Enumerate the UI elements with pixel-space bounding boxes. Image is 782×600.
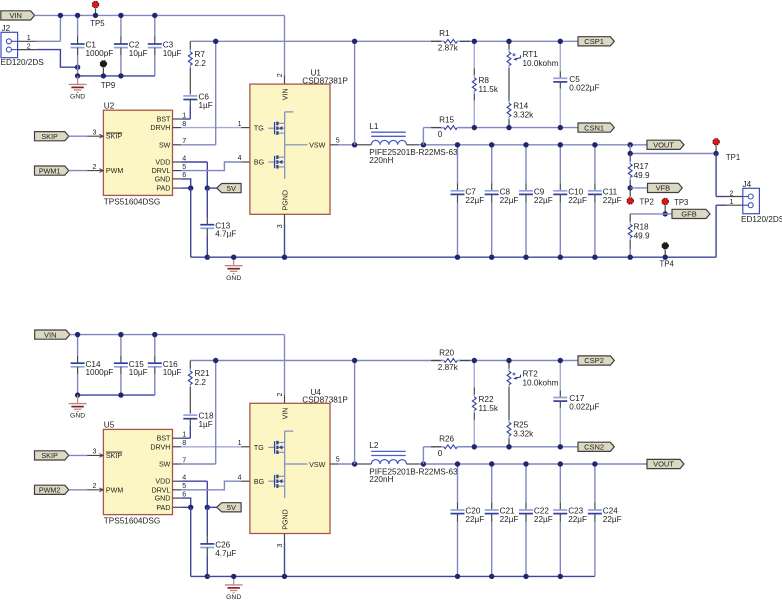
svg-text:GND: GND	[70, 94, 85, 101]
svg-text:SKIP: SKIP	[41, 132, 58, 141]
svg-text:R7: R7	[195, 50, 206, 59]
node CSN line junctions	[472, 125, 477, 130]
net tag GFB	[665, 213, 672, 215]
ground	[233, 576, 235, 584]
svg-text:SKIP: SKIP	[41, 451, 58, 460]
input tag SKIP	[35, 451, 69, 460]
svg-text:TP1: TP1	[726, 153, 740, 162]
wire CSN line	[457, 127, 578, 129]
svg-text:BG: BG	[254, 478, 264, 486]
node VFB junction	[628, 185, 633, 190]
svg-text:VFB: VFB	[656, 184, 671, 193]
svg-text:2: 2	[93, 482, 97, 490]
capacitor C15	[120, 335, 122, 356]
wire VDD pin 4	[173, 161, 182, 163]
driver IC U5 TPS51604DSG	[103, 429, 172, 514]
wire C6 to BST	[189, 106, 191, 119]
net tag VFB	[630, 187, 647, 189]
node PGND junction	[282, 574, 287, 579]
net tag VOUT	[647, 459, 684, 468]
wire input cap ground bus	[78, 394, 155, 396]
svg-text:R8: R8	[479, 76, 490, 85]
svg-text:VIN: VIN	[282, 408, 290, 420]
wire VOUT to TP1 line	[629, 145, 631, 154]
low-side MOSFET	[268, 161, 274, 163]
svg-text:7: 7	[182, 456, 186, 464]
node SW junction	[213, 39, 218, 44]
svg-text:TPS51604DSG: TPS51604DSG	[104, 517, 160, 526]
wire SW node line	[190, 360, 444, 362]
svg-text:VDD: VDD	[155, 159, 170, 167]
svg-text:U2: U2	[104, 101, 115, 110]
svg-text:2.2: 2.2	[195, 59, 207, 68]
wire VSW	[330, 144, 339, 146]
wire DRVL to BG	[173, 170, 182, 172]
svg-text:22µF: 22µF	[534, 196, 553, 205]
svg-text:GND: GND	[155, 175, 171, 183]
node C13 ground junction	[205, 255, 210, 260]
svg-text:TG: TG	[254, 125, 264, 133]
svg-text:220nH: 220nH	[369, 475, 393, 484]
svg-text:VIN: VIN	[9, 11, 22, 20]
svg-text:DRVH: DRVH	[150, 443, 170, 451]
svg-text:2.87k: 2.87k	[438, 44, 459, 53]
node input gnd bus junctions	[75, 73, 80, 78]
resistor R8 11.5k	[473, 41, 475, 68]
svg-text:TPS51604DSG: TPS51604DSG	[104, 198, 160, 207]
power tag 5V	[207, 506, 216, 508]
svg-text:RT2: RT2	[523, 369, 539, 378]
svg-text:U5: U5	[104, 421, 115, 430]
input arrow PWM	[99, 169, 103, 173]
wire J2 pin2 to GND	[37, 50, 78, 68]
svg-text:3: 3	[276, 544, 284, 548]
net tag CSP1	[578, 37, 614, 46]
svg-text:49.9: 49.9	[634, 171, 650, 180]
svg-text:VIN: VIN	[44, 330, 57, 339]
svg-text:0: 0	[438, 130, 443, 139]
svg-text:ED120/2DS: ED120/2DS	[741, 215, 782, 224]
node CSN line junctions	[472, 444, 477, 449]
resistor R26 0	[422, 447, 424, 464]
wire main ground bus	[207, 256, 716, 258]
wire SW pin 7	[173, 463, 182, 465]
svg-text:22µF: 22µF	[568, 196, 587, 205]
resistor R7 2.2	[189, 41, 191, 50]
net tag CSN1	[578, 123, 614, 132]
node SW line sense junctions	[472, 39, 477, 44]
svg-text:6: 6	[182, 171, 186, 179]
svg-text:DRVL: DRVL	[152, 486, 171, 494]
resistor R22 11.5k	[473, 361, 475, 388]
low-side MOSFET	[268, 480, 274, 482]
svg-text:3: 3	[276, 224, 284, 228]
svg-text:1: 1	[238, 439, 242, 447]
svg-text:SKIP: SKIP	[106, 452, 122, 460]
svg-text:SKIP: SKIP	[106, 133, 122, 141]
svg-text:0: 0	[438, 449, 443, 458]
svg-text:11.5k: 11.5k	[479, 85, 499, 94]
svg-text:ED120/2DS: ED120/2DS	[1, 58, 45, 67]
svg-text:CSN2: CSN2	[584, 443, 604, 452]
capacitor C2	[120, 15, 122, 36]
wire VSW	[330, 463, 339, 465]
power block U4 CSD87381P	[250, 403, 330, 533]
test point TP3	[664, 205, 666, 214]
high-side MOSFET	[268, 127, 274, 129]
capacitor C8 22uF	[491, 145, 493, 183]
input arrow PWM	[99, 488, 103, 492]
wire SW vertical	[354, 361, 356, 465]
svg-text:4: 4	[238, 473, 242, 481]
svg-text:R21: R21	[195, 369, 210, 378]
svg-text:1: 1	[730, 198, 734, 206]
wire C6 to BST	[189, 425, 191, 438]
svg-text:TP9: TP9	[101, 81, 115, 90]
capacitor C6 1uF	[183, 95, 197, 97]
inductor L1 220nH	[371, 140, 406, 144]
node VIN rail junctions	[58, 13, 63, 18]
resistor R15 0	[422, 128, 424, 145]
capacitor C11 22uF	[594, 145, 596, 183]
resistor R1 2.87k	[431, 40, 442, 42]
svg-text:TP5: TP5	[90, 19, 105, 28]
svg-text:R25: R25	[513, 421, 528, 430]
svg-text:PAD: PAD	[156, 185, 170, 193]
wire SW vertical	[354, 41, 356, 145]
svg-text:22µF: 22µF	[603, 196, 622, 205]
svg-text:2: 2	[276, 73, 284, 77]
svg-text:BST: BST	[157, 116, 171, 124]
svg-text:5V: 5V	[227, 184, 236, 193]
input arrow SKIP	[99, 454, 103, 458]
svg-text:R14: R14	[513, 101, 528, 110]
svg-text:TP4: TP4	[660, 260, 675, 269]
node VOUT feedback junction	[628, 142, 633, 147]
ground	[233, 257, 235, 265]
node L1 output	[421, 142, 426, 147]
wire VOUT line	[407, 463, 420, 465]
node SW line sense junctions	[472, 358, 477, 363]
svg-text:22µF: 22µF	[500, 196, 519, 205]
wire TP1 to J4 pin2	[715, 154, 717, 197]
node VIN rail junctions	[75, 332, 80, 337]
wire SW pin 7	[173, 144, 182, 146]
svg-text:1: 1	[238, 120, 242, 128]
wire input cap ground bus	[78, 75, 155, 77]
svg-text:1: 1	[182, 431, 186, 439]
resistor R21 2.2	[189, 361, 191, 370]
wire DRVH to TG	[173, 446, 182, 448]
svg-text:VSW: VSW	[309, 461, 325, 469]
svg-text:GFB: GFB	[681, 210, 696, 219]
svg-text:1µF: 1µF	[199, 101, 213, 110]
node input gnd bus junctions	[75, 392, 80, 397]
test point TP1	[715, 146, 717, 154]
resistor R20 2.87k	[431, 360, 442, 362]
wire BST pin 1	[173, 118, 182, 120]
input tag PWM1	[35, 166, 69, 175]
wire PGND to ground	[284, 214, 286, 223]
svg-text:BG: BG	[254, 159, 264, 167]
capacitor C18 1uF	[183, 414, 197, 416]
resistor R25 3.32k	[508, 420, 510, 423]
svg-text:CSP2: CSP2	[584, 356, 604, 365]
wire PAD pin	[173, 187, 182, 189]
capacitor C14	[77, 335, 79, 356]
svg-text:BST: BST	[157, 435, 171, 443]
svg-text:22µF: 22µF	[603, 515, 622, 524]
wire CSN line	[457, 446, 578, 448]
svg-text:RT1: RT1	[523, 50, 539, 59]
capacitor C20 22uF	[457, 464, 459, 502]
svg-text:3: 3	[93, 448, 97, 456]
wire DRVL to BG	[173, 489, 182, 491]
resistor R18 49.9	[630, 213, 665, 215]
wire SKIP	[69, 454, 87, 456]
capacitor C17 0.022uF	[559, 361, 561, 391]
svg-text:22µF: 22µF	[500, 515, 519, 524]
inductor L2 220nH	[371, 460, 406, 464]
wire GND pin 6	[173, 497, 182, 499]
svg-text:0.022µF: 0.022µF	[569, 83, 599, 92]
capacitor C23 22uF	[559, 464, 561, 502]
capacitor C7 22uF	[457, 145, 459, 183]
resistor R17 49.9	[629, 154, 631, 162]
power tag VIN	[35, 330, 70, 339]
thermistor RT1 10.0kohm	[508, 41, 510, 49]
svg-text:R17: R17	[634, 162, 649, 171]
svg-text:10µF: 10µF	[163, 368, 182, 377]
wire SW node line	[190, 40, 444, 42]
svg-text:8: 8	[182, 120, 186, 128]
wire VIN rail	[35, 14, 285, 16]
test point TP5	[95, 8, 97, 15]
svg-text:SW: SW	[159, 461, 171, 469]
svg-text:10.0kohm: 10.0kohm	[523, 59, 559, 68]
node SW junction	[213, 358, 218, 363]
capacitor C5 0.022uF	[559, 41, 561, 71]
svg-text:L1: L1	[369, 122, 379, 131]
svg-text:4: 4	[182, 154, 186, 162]
svg-text:1: 1	[182, 111, 186, 119]
wire VOUT line	[407, 144, 420, 146]
connector J2	[1, 32, 18, 57]
svg-text:49.9: 49.9	[634, 231, 650, 240]
connector J4	[743, 188, 760, 213]
svg-text:2: 2	[276, 393, 284, 397]
svg-text:10.0kohm: 10.0kohm	[523, 378, 559, 387]
capacitor C16	[154, 335, 156, 356]
svg-text:DRVH: DRVH	[150, 124, 170, 132]
wire main ground bus	[207, 575, 595, 577]
thermistor RT2 10.0kohm	[508, 361, 510, 369]
svg-text:PWM: PWM	[106, 167, 123, 175]
node PAD/GND junction	[188, 505, 193, 510]
svg-text:PGND: PGND	[282, 509, 290, 530]
wire DRVH to TG	[173, 127, 182, 129]
svg-text:4.7µF: 4.7µF	[215, 549, 236, 558]
ground	[77, 395, 79, 403]
svg-text:5: 5	[182, 482, 186, 490]
wire SKIP	[69, 135, 87, 137]
node VSW junction	[352, 461, 357, 466]
svg-text:1µF: 1µF	[199, 420, 213, 429]
svg-text:3.32k: 3.32k	[513, 110, 534, 119]
svg-text:8: 8	[182, 439, 186, 447]
svg-text:J4: J4	[743, 180, 752, 189]
input tag SKIP	[35, 132, 69, 141]
svg-text:PWM1: PWM1	[39, 166, 61, 175]
svg-text:1000pF: 1000pF	[86, 49, 114, 58]
svg-text:5: 5	[182, 163, 186, 171]
wire J2 pin1 to VIN	[37, 40, 61, 42]
capacitor C22 22uF	[525, 464, 527, 502]
svg-text:10µF: 10µF	[129, 368, 148, 377]
svg-text:VOUT: VOUT	[653, 141, 674, 150]
svg-text:TG: TG	[254, 444, 264, 452]
svg-text:22µF: 22µF	[568, 515, 587, 524]
wire BST pin 1	[173, 437, 182, 439]
svg-text:R15: R15	[439, 115, 454, 124]
node 5V junction	[205, 505, 210, 510]
test point TP4	[664, 250, 666, 258]
svg-text:R1: R1	[439, 29, 450, 38]
test point TP9	[102, 68, 104, 76]
svg-text:J2: J2	[2, 24, 11, 33]
svg-text:1000pF: 1000pF	[86, 368, 114, 377]
capacitor C24 22uF	[594, 464, 596, 502]
svg-text:GND: GND	[226, 275, 241, 282]
svg-text:TP3: TP3	[674, 198, 688, 207]
power block U1 CSD87381P	[250, 84, 330, 214]
node PAD/GND junction	[188, 185, 193, 190]
svg-text:SW: SW	[159, 141, 171, 149]
node PGND junction	[282, 255, 287, 260]
svg-text:22µF: 22µF	[465, 515, 484, 524]
svg-text:5V: 5V	[227, 503, 236, 512]
svg-text:VDD: VDD	[155, 478, 170, 486]
svg-text:R18: R18	[634, 223, 649, 232]
node TP1 junction	[713, 151, 718, 156]
svg-text:PAD: PAD	[156, 504, 170, 512]
svg-text:GND: GND	[70, 413, 85, 420]
svg-text:2: 2	[93, 163, 97, 171]
svg-text:6: 6	[182, 490, 186, 498]
wire PWM	[69, 170, 87, 172]
svg-text:2.87k: 2.87k	[438, 363, 459, 372]
ground	[77, 76, 79, 84]
svg-text:10µF: 10µF	[129, 49, 148, 58]
svg-text:4: 4	[238, 154, 242, 162]
svg-text:VOUT: VOUT	[653, 460, 674, 469]
wire ground to J4 pin1	[715, 205, 717, 257]
node GFB junction	[663, 211, 668, 216]
power tag 5V	[207, 187, 216, 189]
wire PWM	[69, 489, 87, 491]
wire VDD pin 4	[173, 480, 182, 482]
wire PGND to ground	[284, 534, 286, 543]
capacitor C13 4.7uF	[206, 188, 208, 217]
wire VIN rail	[70, 334, 285, 336]
svg-text:22µF: 22µF	[465, 196, 484, 205]
svg-text:2.2: 2.2	[195, 378, 207, 387]
power tag VIN	[1, 11, 35, 20]
node SW line junction	[352, 358, 357, 363]
node TP4 junction	[663, 255, 668, 260]
net tag VOUT	[647, 140, 684, 149]
capacitor C9 22uF	[525, 145, 527, 183]
svg-text:PWM: PWM	[106, 486, 123, 494]
svg-text:3.32k: 3.32k	[513, 430, 534, 439]
svg-text:R22: R22	[479, 395, 494, 404]
svg-text:CSN1: CSN1	[584, 123, 604, 132]
wire GND pin 6	[173, 178, 182, 180]
svg-text:L2: L2	[369, 441, 379, 450]
svg-text:DRVL: DRVL	[152, 167, 171, 175]
svg-text:2: 2	[730, 189, 734, 197]
node J2 pin2 junction	[75, 65, 80, 70]
svg-text:R26: R26	[439, 435, 454, 444]
svg-text:GND: GND	[226, 594, 241, 600]
svg-text:7: 7	[182, 137, 186, 145]
svg-text:CSP1: CSP1	[584, 37, 604, 46]
test point TP2	[629, 188, 631, 197]
wire PAD pin	[173, 506, 182, 508]
input tag PWM2	[35, 485, 69, 494]
svg-text:5: 5	[336, 456, 340, 464]
wire PAD to ground bus	[190, 188, 192, 257]
capacitor C3	[154, 15, 156, 36]
svg-text:TP2: TP2	[640, 197, 654, 206]
svg-text:4: 4	[182, 474, 186, 482]
input arrow SKIP	[99, 134, 103, 138]
node 5V junction	[205, 185, 210, 190]
svg-text:3: 3	[93, 129, 97, 137]
svg-text:PWM2: PWM2	[39, 486, 61, 495]
net tag CSN2	[578, 442, 614, 451]
svg-text:VIN: VIN	[282, 88, 290, 100]
svg-text:10µF: 10µF	[163, 49, 182, 58]
svg-text:220nH: 220nH	[369, 156, 393, 165]
capacitor C26 4.7uF	[206, 507, 208, 536]
driver IC U2 TPS51604DSG	[103, 110, 172, 195]
svg-text:22µF: 22µF	[534, 515, 553, 524]
svg-text:5: 5	[336, 137, 340, 145]
svg-text:11.5k: 11.5k	[479, 404, 499, 413]
node C13 ground junction	[205, 574, 210, 579]
wire PAD to ground bus	[190, 507, 192, 576]
high-side MOSFET	[268, 446, 274, 448]
svg-text:PGND: PGND	[282, 190, 290, 211]
svg-text:4.7µF: 4.7µF	[215, 230, 236, 239]
capacitor C10 22uF	[559, 145, 561, 183]
capacitor C1	[77, 15, 79, 36]
node SW line junction	[352, 39, 357, 44]
svg-text:GND: GND	[155, 495, 171, 503]
node L1 output	[421, 461, 426, 466]
svg-text:R20: R20	[439, 348, 454, 357]
capacitor C21 22uF	[491, 464, 493, 502]
net tag CSP2	[578, 356, 614, 365]
node VSW junction	[352, 142, 357, 147]
svg-text:CSD87381P: CSD87381P	[302, 396, 348, 405]
resistor R14 3.32k	[508, 101, 510, 104]
svg-text:VSW: VSW	[309, 142, 325, 150]
svg-text:0.022µF: 0.022µF	[569, 403, 599, 412]
node R18 ground junction	[628, 255, 633, 260]
svg-text:CSD87381P: CSD87381P	[302, 76, 348, 85]
